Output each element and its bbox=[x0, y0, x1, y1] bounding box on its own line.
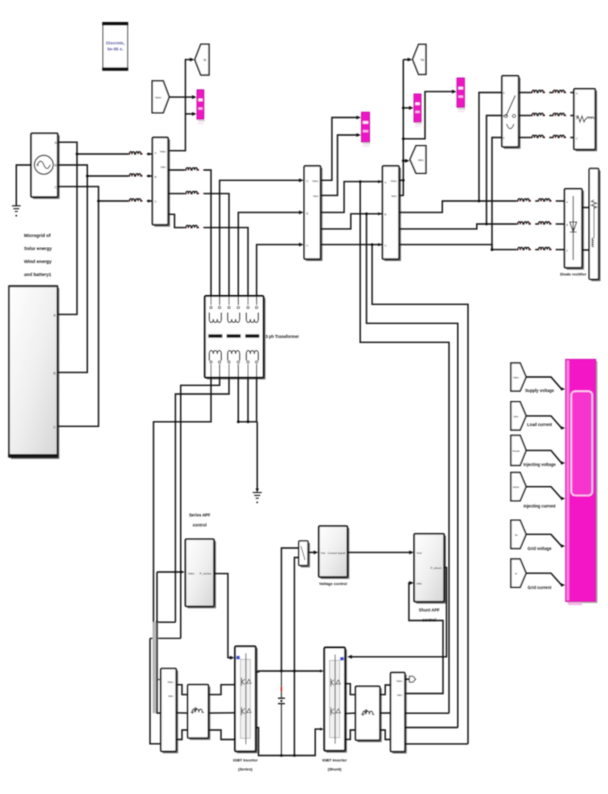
shunt APF control block bbox=[414, 534, 445, 603]
svg-text:Vabc: Vabc bbox=[167, 680, 174, 684]
wire breaker row 1 to load bbox=[519, 92, 531, 94]
wire meas3 b to rectifier row B bbox=[399, 224, 516, 229]
svg-text:A: A bbox=[576, 91, 578, 95]
svg-text:Vabc: Vabc bbox=[155, 95, 162, 99]
wire breaker row 2 to load bbox=[519, 115, 531, 117]
wire series filter b to inverter bbox=[208, 712, 235, 714]
svg-text:control: control bbox=[193, 523, 207, 528]
wire series APF Vabc input bbox=[156, 572, 158, 622]
wire shunt filter c to meas bbox=[380, 730, 391, 740]
wire transformer sec pin5 to ground net bbox=[247, 378, 249, 422]
wire meas1 output a to transformer pin1 bbox=[168, 169, 184, 171]
microgrid subsystem block bbox=[8, 285, 58, 458]
series RL branch phase C in bbox=[128, 199, 143, 202]
svg-text:Iabc: Iabc bbox=[416, 582, 422, 586]
series RL branch phase B in bbox=[128, 174, 143, 177]
svg-text:IGBT Inverter: IGBT Inverter bbox=[322, 758, 347, 763]
svg-text:Injecting current: Injecting current bbox=[523, 504, 556, 509]
series RL branch load row 3 second bbox=[552, 135, 567, 138]
wire series filter c to inverter bbox=[208, 730, 235, 740]
wire shunt tap phase A down to shunt measurement a bbox=[360, 182, 449, 714]
svg-text:Wind energy: Wind energy bbox=[24, 259, 52, 264]
wire shunt meas Iabc to shunt APF control bbox=[405, 583, 443, 694]
svg-text:Solar energy: Solar energy bbox=[24, 246, 52, 251]
shunt VI measurement block bbox=[391, 673, 406, 753]
svg-text:and battery1: and battery1 bbox=[24, 272, 52, 277]
series RL branch rect row 3 second bbox=[537, 247, 552, 250]
wire H-link upper (to gray net) bbox=[157, 621, 175, 623]
wire rectifier minus to DC load bbox=[582, 249, 589, 251]
svg-text:B: B bbox=[306, 211, 308, 215]
wire shunt meas a to riser bbox=[405, 712, 449, 714]
three-phase source block bbox=[31, 133, 59, 198]
series RL branch rect row 1 first bbox=[516, 199, 531, 202]
svg-text:Vabc: Vabc bbox=[312, 179, 319, 183]
wire shunt tap phase B down to shunt measurement b bbox=[367, 214, 458, 728]
wire meas2 c to meas3 C with shunt tap bbox=[321, 244, 383, 246]
wire phase B source to measurement1 and microgrid B bbox=[58, 165, 128, 176]
svg-text:Va: Va bbox=[514, 533, 518, 537]
wire phase C source to measurement1 and microgrid C bbox=[58, 187, 128, 201]
svg-text:B: B bbox=[576, 114, 578, 118]
wire from Ia to main scope bbox=[526, 573, 561, 585]
svg-text:A: A bbox=[385, 180, 387, 184]
svg-text:C: C bbox=[306, 243, 308, 247]
Vdc measurement small block bbox=[299, 541, 309, 567]
wire shunt meas b to riser bbox=[405, 727, 458, 729]
wire H-link lower bbox=[150, 637, 181, 639]
wire series meas a to filter bbox=[176, 685, 188, 695]
svg-text:Grid current: Grid current bbox=[528, 585, 552, 590]
three-phase VI measurement 2 bbox=[304, 166, 321, 260]
wire meas2 Iabc to Scope2 bbox=[321, 135, 358, 195]
wire meas2 a to meas3 A with shunt tap bbox=[321, 182, 383, 213]
series RL branch phase c bbox=[184, 225, 199, 228]
wire transformer pin2 to meas2 A bbox=[220, 180, 301, 296]
svg-text:Iabc: Iabc bbox=[161, 165, 167, 169]
three-phase VI measurement 1 bbox=[148, 152, 152, 155]
svg-text:Diode rectifier: Diode rectifier bbox=[560, 272, 587, 277]
wire series filter a to inverter bbox=[208, 685, 235, 695]
wire bus to goto Iabc bbox=[403, 160, 405, 162]
svg-text:P_shunt: P_shunt bbox=[430, 566, 441, 570]
DC load block (rotated RL) bbox=[589, 169, 600, 281]
svg-text:A: A bbox=[503, 91, 505, 95]
svg-text:Iabc: Iabc bbox=[168, 694, 174, 698]
wire phase A source to measurement1 and microgrid A bbox=[58, 142, 128, 154]
svg-text:(Shunt): (Shunt) bbox=[328, 767, 342, 772]
svg-text:C: C bbox=[503, 136, 505, 140]
from tag Vabc for main scope bbox=[511, 363, 526, 391]
series VI measurement block bbox=[161, 669, 178, 753]
svg-text:P_series: P_series bbox=[200, 572, 212, 576]
shunt coupling filter block bbox=[356, 686, 381, 741]
series RL branch rect row 2 first bbox=[516, 222, 531, 225]
wire P_series to series inverter gate bbox=[214, 574, 231, 658]
svg-text:3 ph Transformer: 3 ph Transformer bbox=[266, 334, 300, 339]
wire transformer sec pin4 to ground net bbox=[237, 378, 239, 422]
wire shunt filter b to meas bbox=[380, 712, 391, 714]
wire bus to goto Va bbox=[403, 59, 408, 61]
wire riser row A to breaker A bbox=[479, 93, 502, 202]
svg-text:C: C bbox=[576, 136, 578, 140]
svg-text:Iabc: Iabc bbox=[513, 414, 519, 418]
voltage control block bbox=[319, 526, 349, 578]
svg-text:Vserie: Vserie bbox=[512, 449, 520, 453]
svg-text:5e-05 s.: 5e-05 s. bbox=[107, 47, 123, 52]
wire rectifier plus to DC load bbox=[582, 207, 589, 209]
wire left net down to series meas C bbox=[150, 638, 161, 743]
goto tag Va bbox=[413, 44, 426, 74]
wire series meas b to filter bbox=[176, 712, 188, 714]
wire rectifier row 2 bbox=[515, 223, 517, 225]
IGBT inverter shunt block bbox=[324, 648, 346, 752]
svg-text:Voltage control: Voltage control bbox=[319, 581, 347, 586]
svg-text:Vabc: Vabc bbox=[390, 179, 397, 183]
wire transformer sec pin3 route left bbox=[175, 378, 229, 623]
wire vertical net to Goto Ia and Scope1 bbox=[168, 60, 190, 151]
scope Scope2 bbox=[362, 112, 371, 147]
series RL branch load row 2 second bbox=[552, 113, 567, 116]
wire shunt inverter a to filter bbox=[345, 684, 356, 695]
svg-text:Vref: Vref bbox=[416, 551, 422, 555]
goto tag Ia bbox=[195, 44, 209, 75]
svg-text:Microgrid of: Microgrid of bbox=[24, 233, 51, 238]
from tag Iserie for main scope bbox=[511, 473, 526, 501]
series RL branch rect row 2 second bbox=[537, 222, 552, 225]
wire series meas c to filter bbox=[176, 730, 188, 740]
svg-text:Shunt APF: Shunt APF bbox=[419, 608, 440, 613]
wire transformer sec pin6 to ground bbox=[256, 378, 258, 422]
series RL branch load row 1 first bbox=[531, 90, 546, 93]
wire meas2 Vabc to Scope2 bbox=[321, 118, 358, 181]
svg-text:C: C bbox=[155, 200, 157, 204]
scope Scope4 bbox=[457, 78, 465, 112]
wire riser row C to breaker C bbox=[492, 138, 502, 250]
svg-text:A: A bbox=[566, 200, 568, 204]
ground of source bbox=[16, 165, 31, 206]
svg-text:Injecting voltage: Injecting voltage bbox=[523, 462, 556, 467]
svg-text:Iabc: Iabc bbox=[397, 693, 403, 697]
wire transformer pin6 to meas2 C bbox=[257, 245, 301, 296]
svg-text:IGBT Inverter: IGBT Inverter bbox=[233, 758, 258, 763]
series RL branch load row 1 second bbox=[552, 90, 567, 93]
diode rectifier block bbox=[565, 189, 584, 269]
svg-text:B: B bbox=[566, 223, 568, 227]
powergui block Discrete 5e-05s bbox=[102, 22, 128, 71]
svg-text:Vabc: Vabc bbox=[160, 149, 167, 153]
IGBT inverter series block bbox=[235, 646, 257, 752]
wire ground net horizontal bbox=[238, 421, 257, 423]
wire transformer pin4 to meas2 B bbox=[238, 212, 301, 296]
svg-text:Ia: Ia bbox=[203, 58, 206, 62]
svg-text:Load current: Load current bbox=[527, 422, 553, 427]
svg-text:B: B bbox=[155, 175, 157, 179]
wire bus over to Scope4 bbox=[403, 92, 453, 139]
wire meas3 a to rectifier row A bbox=[399, 201, 516, 212]
from tag Va for main scope bbox=[511, 520, 526, 548]
wire transformer sec pin2 route left bbox=[181, 378, 220, 639]
three-phase VI measurement 3 bbox=[378, 180, 382, 183]
wire control signal to shunt APF Vref bbox=[347, 551, 410, 553]
wire from Va to main scope bbox=[526, 534, 561, 546]
wire meas1 output b to transformer pin3 bbox=[168, 193, 184, 195]
svg-text:Iserie: Iserie bbox=[513, 485, 520, 489]
svg-text:Vdc: Vdc bbox=[321, 551, 327, 555]
scope Scope3 bbox=[414, 94, 422, 127]
wire DC sense lines up to Vdc measurement bbox=[281, 548, 298, 671]
wire shunt meas Vabc stub bbox=[405, 678, 410, 680]
wire Vdc meas to voltage control bbox=[308, 551, 315, 553]
series RL branch load row 2 first bbox=[531, 113, 546, 116]
series RL branch phase A in bbox=[128, 152, 143, 155]
wire rectifier row 1 bbox=[515, 200, 517, 202]
goto tag Iabc bbox=[410, 146, 426, 173]
svg-text:Vabc: Vabc bbox=[396, 679, 403, 683]
svg-text:B: B bbox=[503, 114, 505, 118]
svg-text:Vabc: Vabc bbox=[513, 375, 520, 379]
wire from Iserie to main scope bbox=[526, 487, 561, 499]
series RL branch phase b bbox=[184, 191, 199, 194]
wire gray thick net down to series meas B bbox=[153, 622, 159, 713]
wire from Iabc to main scope bbox=[526, 416, 561, 428]
wire shunt inverter c to filter bbox=[345, 730, 356, 739]
wire from Vabc to main scope bbox=[526, 377, 561, 389]
wire shunt inverter b to filter bbox=[345, 712, 356, 715]
svg-text:C: C bbox=[53, 425, 56, 429]
three-phase breaker block bbox=[502, 76, 520, 148]
wire meas3 Vabc Iabc signal bus bbox=[399, 60, 403, 181]
wire breaker row 3 to load bbox=[519, 137, 531, 139]
wire transformer sec pin1 route to series meas A bbox=[154, 378, 212, 680]
svg-text:(Series): (Series) bbox=[238, 767, 253, 772]
ground of transformer secondary bbox=[256, 489, 259, 493]
wire DC minus rail bbox=[256, 728, 321, 756]
svg-text:Iabc: Iabc bbox=[313, 194, 319, 198]
series RL branch phase a bbox=[184, 168, 199, 171]
scope main (magenta) bbox=[566, 359, 598, 605]
svg-text:Iabc: Iabc bbox=[391, 194, 397, 198]
wire meas3 c to rectifier row C bbox=[399, 245, 516, 250]
from tag Vabc (source measurement) bbox=[152, 81, 169, 113]
svg-text:C: C bbox=[566, 249, 568, 253]
from tag Iabc for main scope bbox=[511, 402, 526, 430]
wire shunt filter a to meas bbox=[380, 685, 391, 695]
svg-text:Supply voltage: Supply voltage bbox=[525, 388, 555, 393]
svg-text:Va: Va bbox=[420, 58, 424, 62]
wire bus to Scope3 bbox=[403, 107, 410, 109]
from tag Ia for main scope bbox=[511, 559, 526, 587]
wire meas2 b to meas3 B with shunt tap bbox=[321, 214, 383, 229]
wire From Vabc to Scope1 bbox=[169, 96, 192, 98]
three-phase RLC load block bbox=[574, 89, 596, 151]
svg-text:Discrete,: Discrete, bbox=[106, 41, 125, 46]
svg-text:B: B bbox=[385, 213, 387, 217]
series RL branch rect row 1 second bbox=[537, 199, 552, 202]
series RL branch load row 3 first bbox=[531, 135, 546, 138]
capacitor DC link bbox=[280, 671, 282, 698]
wire DC plus rail bbox=[256, 670, 321, 673]
wire shunt tap phase C down to shunt measurement c bbox=[372, 245, 468, 744]
from tag Vserie for main scope bbox=[511, 435, 526, 465]
wire rectifier row 3 bbox=[515, 249, 517, 251]
three-phase transformer block bbox=[205, 296, 265, 379]
svg-text:N: N bbox=[36, 164, 39, 168]
svg-text:A: A bbox=[306, 179, 308, 183]
series APF control block bbox=[185, 539, 215, 607]
svg-text:Series APF: Series APF bbox=[189, 513, 211, 518]
svg-text:Control signal: Control signal bbox=[328, 551, 346, 555]
svg-text:Grid voltage: Grid voltage bbox=[528, 546, 553, 551]
series RL branch rect row 3 first bbox=[516, 247, 531, 250]
wire from Vserie to main scope bbox=[526, 450, 561, 463]
series coupling filter block bbox=[188, 685, 210, 739]
wire meas1 output c to transformer pin5 bbox=[168, 214, 184, 227]
svg-text:Vabc: Vabc bbox=[188, 572, 195, 576]
svg-text:A: A bbox=[155, 151, 157, 155]
svg-text:C: C bbox=[385, 243, 387, 247]
wire P_shunt to shunt inverter gate bbox=[350, 567, 447, 656]
wire riser row B to breaker B bbox=[487, 116, 502, 225]
scope Scope1 bbox=[197, 90, 205, 124]
svg-text:Iabc: Iabc bbox=[418, 158, 424, 162]
wire shunt meas c to riser bbox=[405, 743, 468, 745]
